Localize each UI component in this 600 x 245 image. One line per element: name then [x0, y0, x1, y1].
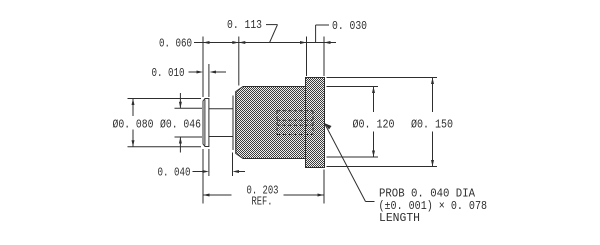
dimension 0.030 arrows: [324, 41, 331, 44]
svg-text:LENGTH: LENGTH: [379, 211, 420, 225]
label 0.030 with bracket: [316, 19, 367, 43]
extension line cone face: [232, 153, 234, 177]
body front face: [233, 92, 236, 154]
hidden probe bore: [277, 111, 313, 135]
svg-text:Ø0. 150: Ø0. 150: [411, 118, 453, 132]
svg-text:0. 060: 0. 060: [159, 37, 192, 51]
svg-text:Ø0. 120: Ø0. 120: [353, 118, 395, 132]
washer flange: [203, 99, 209, 147]
svg-text:0. 040: 0. 040: [158, 166, 191, 180]
extension line washer right: [208, 64, 210, 176]
dimension dia 0.080: [113, 99, 202, 147]
extension line flange left: [202, 37, 204, 204]
label 0.113 with leader: [227, 18, 278, 43]
shaft: [209, 109, 233, 137]
probe note leader: [324, 123, 374, 201]
dimension dia 0.120: [327, 87, 395, 158]
dimension 0.203 REF: [203, 184, 324, 209]
extension line flange front: [306, 37, 308, 77]
probe note text: [379, 187, 488, 226]
svg-text:0. 030: 0. 030: [332, 19, 367, 33]
svg-text:0. 010: 0. 010: [152, 66, 185, 80]
svg-text:REF.: REF.: [252, 195, 273, 209]
extension line right face: [323, 37, 325, 204]
dimension dia 0.046: [160, 93, 202, 153]
dimension 0.040: [158, 166, 246, 180]
knurled body: [236, 87, 306, 159]
flange: [306, 78, 325, 168]
dimension dia 0.150: [327, 78, 454, 167]
svg-text:0. 113: 0. 113: [227, 18, 262, 32]
dimension 0.060: [203, 41, 239, 44]
svg-text:Ø0. 046: Ø0. 046: [160, 118, 201, 132]
dimension 0.113 arrows: [239, 41, 307, 44]
dimension 0.010: [152, 66, 227, 80]
top dimension line: [194, 42, 336, 44]
label 0.060: [159, 37, 192, 51]
svg-text:Ø0. 080: Ø0. 080: [113, 118, 154, 132]
extension line knurl start: [238, 37, 240, 86]
